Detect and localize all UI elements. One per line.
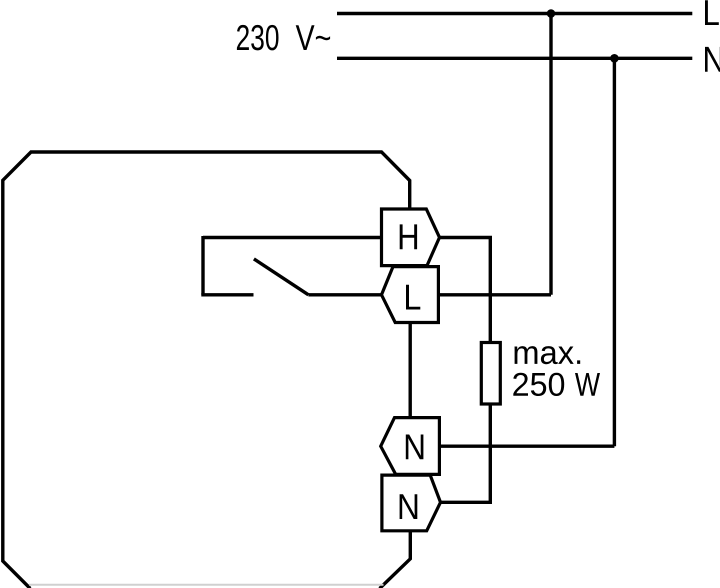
wire switch top to terminal H left [203, 236, 383, 239]
label terminal L [406, 285, 420, 310]
device outline bottom-right (exits terminal N lower) [380, 530, 411, 588]
wire switch blade to terminal L point [308, 293, 382, 296]
lamp load resistor (max. 250 W) [481, 343, 500, 405]
switch blade (open contact) [254, 259, 309, 295]
label "230" [237, 25, 279, 51]
wire terminal L right to L-rail drop [438, 293, 551, 296]
label L (supply) [705, 0, 719, 25]
terminal N upper [381, 418, 440, 475]
label terminal H [400, 224, 417, 249]
wire drop from L rail to terminal L row [549, 14, 552, 295]
wire drop from N rail to terminal N row [613, 58, 616, 446]
label "V~" [296, 25, 330, 50]
label "max." [515, 346, 581, 364]
label "250" [513, 373, 564, 396]
wire switch left vertical [201, 236, 204, 295]
wire terminal L bottom to terminal N upper top [409, 323, 412, 418]
label N (supply) [705, 47, 720, 72]
wire switch fixed contact stub [201, 293, 253, 296]
device outline top/left (enters terminal H) [3, 152, 410, 588]
wire L supply rail [337, 12, 692, 15]
junction dot on L rail [547, 9, 556, 18]
label terminal N upper [406, 435, 424, 460]
label terminal N lower [400, 494, 418, 519]
terminal L [382, 267, 439, 323]
wire N supply rail [337, 57, 692, 60]
wire terminal N upper right to N-rail drop [439, 445, 614, 448]
wire terminal H right, down through lamp to terminal N lower [440, 238, 491, 503]
device outline bottom edge (faint) [29, 584, 384, 586]
terminal N lower [382, 475, 441, 531]
label "W" [575, 373, 600, 396]
terminal H [382, 209, 440, 266]
junction dot on N rail [610, 54, 619, 63]
